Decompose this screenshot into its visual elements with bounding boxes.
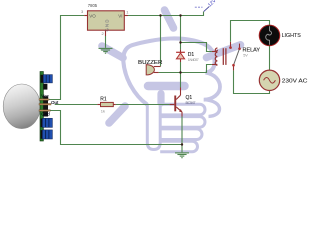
label LIGHTS bbox=[282, 33, 302, 39]
lamp L1 LIGHTS bbox=[259, 25, 280, 46]
pin stub R1 right bbox=[113, 104, 115, 106]
value label 1k bbox=[101, 109, 105, 114]
wire Q1 emitter to ground bbox=[181, 117, 183, 153]
relay RL1 coil bbox=[215, 48, 226, 65]
watermark ray top bbox=[165, 10, 174, 28]
pin number 2 bbox=[102, 31, 105, 36]
wire PIR Gnd to emitter ground node bbox=[50, 111, 182, 145]
svg-text:1N4007: 1N4007 bbox=[188, 58, 199, 62]
wire diode D1 anode to Q1 collector bbox=[180, 62, 182, 88]
svg-text:VO: VO bbox=[89, 13, 96, 18]
PIR trimpot top bbox=[43, 75, 52, 83]
svg-text:Vcc: Vcc bbox=[41, 94, 49, 99]
pin number 1 bbox=[126, 10, 129, 15]
wire 7805 pin 2 to ground bbox=[105, 36, 107, 48]
pin stub Q1 base bbox=[170, 104, 175, 106]
label R1 bbox=[100, 96, 107, 102]
buzzer BZ1 body bbox=[146, 65, 154, 75]
label 7805 bbox=[88, 3, 98, 8]
PIR pin Out bbox=[39, 104, 51, 106]
watermark bulb glass outline bbox=[123, 38, 214, 104]
pin stub D1 cathode bbox=[180, 50, 182, 53]
regulator U1 7805 body bbox=[88, 11, 125, 30]
svg-text:Q1: Q1 bbox=[186, 95, 193, 101]
wire PIR Out through R1 to Q1 base bbox=[55, 104, 170, 106]
junction node emitter / PIR gnd bbox=[181, 143, 183, 145]
wire PIR Vcc to 7805 pin 3 (VO) bbox=[49, 16, 84, 100]
pin stub 7805 pin 2 bbox=[105, 30, 107, 36]
label 230V AC bbox=[282, 78, 308, 84]
pin stub relay coil bottom bbox=[212, 64, 215, 66]
pin label GND rotated bbox=[104, 20, 109, 32]
PIR PCB strip bbox=[40, 72, 43, 142]
watermark ray upper-left bbox=[102, 46, 123, 58]
wire relay switch to lamp and 230V source loop bbox=[231, 21, 270, 94]
svg-text:R1: R1 bbox=[100, 96, 107, 102]
svg-text:BUZZER: BUZZER bbox=[138, 60, 162, 66]
PIR trimpot bottom 1 bbox=[42, 118, 52, 127]
relay RL1 switch bbox=[229, 46, 241, 66]
label RELAY bbox=[243, 47, 261, 53]
ground symbol at 7805 pin 2 bbox=[99, 48, 113, 53]
watermark crossbar bbox=[148, 82, 185, 91]
power terminal 12V bbox=[195, 0, 218, 12]
watermark neck U bbox=[147, 104, 160, 150]
AC source V1 230V bbox=[259, 70, 279, 90]
diode D1 bbox=[176, 52, 185, 59]
pin stub 7805 pin 1 bbox=[124, 15, 128, 17]
ground symbol at Q1 emitter bbox=[175, 153, 189, 158]
value label 1N4007 bbox=[188, 58, 199, 62]
pin label Vcc bbox=[41, 94, 49, 99]
svg-text:230V AC: 230V AC bbox=[282, 78, 308, 84]
watermark ray upper-right bbox=[207, 45, 241, 58]
wire rail to diode D1 cathode bbox=[180, 16, 182, 50]
junction diode drop on 12V rail bbox=[179, 14, 181, 16]
svg-text:Out: Out bbox=[51, 100, 59, 105]
label D1 bbox=[188, 52, 195, 58]
svg-text:7805: 7805 bbox=[88, 3, 98, 8]
pin stub relay contact NO bbox=[239, 44, 241, 48]
value label BC547 bbox=[186, 101, 196, 105]
wire rail to buzzer pin 1 bbox=[160, 16, 162, 67]
wire buzzer pin 2 to collector node and relay coil bottom bbox=[159, 65, 212, 73]
junction buzzer drop on 12V rail bbox=[159, 14, 161, 16]
watermark finger 3 bbox=[160, 129, 202, 140]
pin label VI bbox=[118, 13, 122, 18]
value label 5V bbox=[243, 53, 248, 57]
svg-text:Gnd: Gnd bbox=[41, 112, 50, 117]
label Q1 bbox=[186, 95, 193, 101]
pin stub buzzer pin 2 bbox=[154, 72, 159, 74]
pin stub Q1 collector bbox=[180, 88, 182, 96]
PIR pin Gnd bbox=[39, 110, 50, 112]
pin label Out bbox=[51, 100, 59, 105]
PIR trimpot bottom 2 bbox=[42, 130, 52, 139]
junction node collector / buzzer / coil bottom bbox=[179, 71, 181, 73]
watermark stem bbox=[157, 94, 164, 104]
pin label Gnd bbox=[41, 112, 50, 117]
pin stub D1 anode bbox=[180, 59, 182, 62]
svg-text:RELAY: RELAY bbox=[243, 47, 261, 53]
pin stub R1 left bbox=[97, 104, 100, 106]
pin label VO bbox=[89, 13, 96, 18]
svg-text:LIGHTS: LIGHTS bbox=[282, 33, 302, 39]
watermark finger 2 bbox=[160, 117, 205, 128]
wire 7805 pin 1 (VI) to 12V rail bbox=[128, 12, 204, 16]
PIR header connector bbox=[43, 96, 48, 116]
svg-text:GND: GND bbox=[104, 20, 109, 32]
pin stub 7805 pin 3 bbox=[84, 15, 87, 17]
svg-text:D1: D1 bbox=[188, 52, 195, 58]
watermark knuckle bump bbox=[204, 100, 220, 117]
PIR sensor dome bbox=[3, 84, 40, 129]
watermark ray lower-left bbox=[109, 106, 125, 123]
PIR pin Vcc bbox=[39, 99, 49, 101]
junction node D1 cathode / relay coil branch bbox=[179, 41, 181, 43]
pin number 3 bbox=[81, 9, 84, 14]
PIR component box bbox=[43, 84, 47, 90]
svg-text:VI: VI bbox=[118, 13, 122, 18]
watermark finger 4 bbox=[160, 141, 197, 152]
pin stub relay coil top bbox=[212, 51, 215, 53]
pin stub buzzer pin 1 bbox=[154, 66, 161, 68]
svg-text:5V: 5V bbox=[243, 53, 248, 57]
watermark thumb bulge bbox=[204, 73, 220, 100]
watermark finger 1 bbox=[160, 104, 205, 115]
pin stub relay contact NC bbox=[230, 42, 232, 47]
svg-text:BC547: BC547 bbox=[186, 101, 196, 105]
label BUZZER bbox=[138, 60, 162, 66]
wire node D1 junction to relay coil top bbox=[181, 43, 212, 52]
resistor R1 body bbox=[101, 102, 114, 106]
pin stub relay pole bbox=[233, 66, 235, 71]
svg-text:1k: 1k bbox=[101, 109, 105, 114]
transistor Q1 bbox=[174, 95, 182, 116]
